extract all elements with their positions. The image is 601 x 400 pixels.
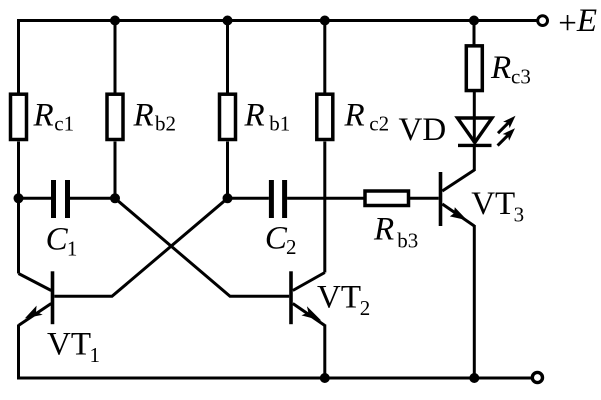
wire VT3 emitter drop: [473, 225, 476, 378]
wire Rc3 to LED anode: [473, 91, 476, 144]
capacitor C1: [54, 180, 68, 218]
node top Rb1: [223, 16, 233, 26]
wire C2 left: [228, 197, 269, 200]
node top Rc2: [320, 16, 330, 26]
resistor Rc1: [11, 94, 27, 139]
resistor Rb2: [107, 94, 123, 139]
terminal +E: [538, 16, 548, 26]
wire VT2 emitter drop: [323, 325, 326, 379]
node bottom VT3 emitter: [469, 373, 479, 383]
wire top rail: [17, 19, 537, 22]
transistor VT1: [19, 271, 53, 325]
wire bottom rail: [17, 377, 532, 380]
wire left emitter drop: [17, 325, 20, 380]
transistor VT3: [441, 170, 475, 226]
terminal bottom: [532, 372, 542, 382]
node C1 left: [14, 193, 24, 203]
wire Rb2 drop: [114, 21, 117, 199]
wire coupling C1/Rb2 node to VT2 base: [115, 198, 289, 296]
wire left rail Rc1 branch: [17, 19, 20, 274]
wire Rc2 drop down to VT2 collector: [323, 21, 326, 273]
capacitor C2: [271, 180, 284, 218]
node top Rc3: [469, 16, 479, 26]
wire C2 right to Rb3: [287, 197, 364, 200]
node bottom VT2 emitter: [320, 373, 330, 383]
wire Rb3 to VT3 base: [409, 197, 439, 200]
resistor Rc2: [317, 94, 333, 139]
LED VD cathode bar: [458, 144, 492, 147]
svg-text:+E: +E: [558, 3, 597, 42]
wire Rc3 top: [473, 21, 476, 46]
wire coupling C2/Rb1 node to VT1 base: [54, 198, 227, 296]
node C2 left: [223, 193, 233, 203]
wire VT3 collector to LED cathode: [473, 144, 476, 171]
LED VD diode triangle: [458, 118, 493, 143]
LED emission arrow 2: [498, 128, 515, 145]
resistor Rb1: [220, 94, 236, 139]
resistor Rb3: [365, 191, 409, 206]
node C1 right: [110, 193, 120, 203]
transistor VT2: [291, 271, 325, 325]
wire C1 left: [19, 197, 52, 200]
wire C1 right: [70, 197, 115, 200]
resistor Rc3: [466, 46, 482, 91]
wire Rb1 drop: [226, 21, 229, 199]
LED emission arrow 1: [498, 116, 516, 134]
node top Rb2: [110, 16, 120, 26]
svg-text:VD: VD: [399, 112, 447, 148]
